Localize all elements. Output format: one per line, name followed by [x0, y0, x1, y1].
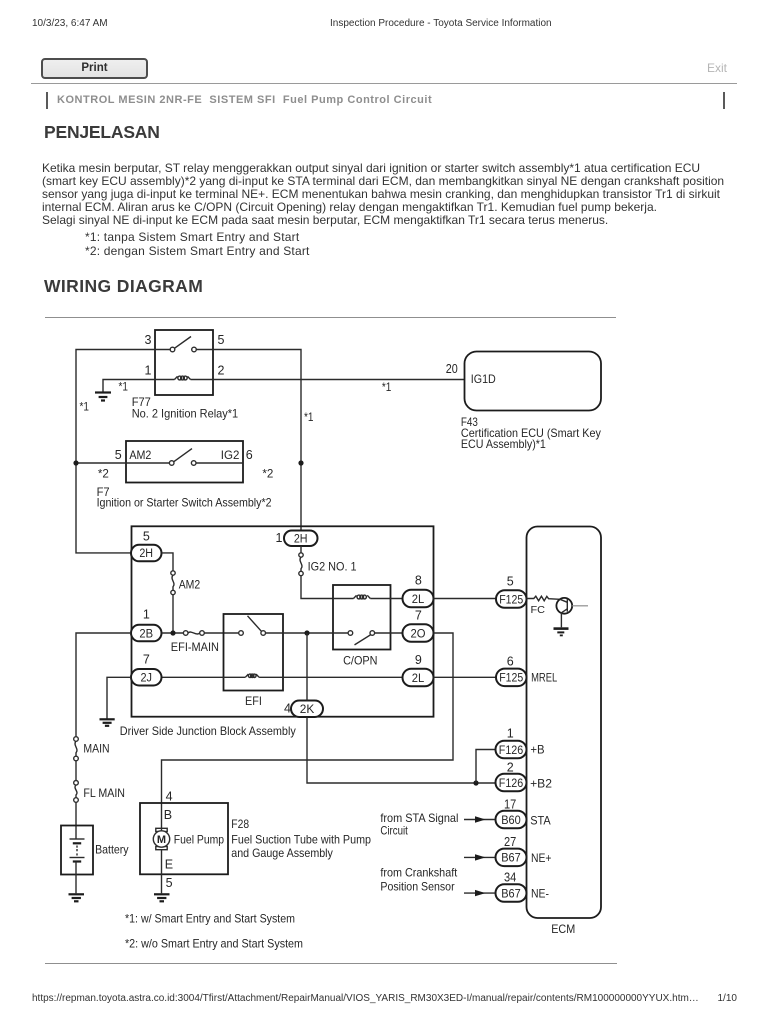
wire branch to +B	[476, 750, 496, 784]
connector B60 STA	[496, 811, 527, 829]
svg-text:STA: STA	[530, 813, 551, 827]
svg-text:Position Sensor: Position Sensor	[380, 879, 454, 893]
svg-text:8: 8	[415, 574, 422, 588]
pin 5 label F7	[115, 448, 122, 462]
svg-text:2: 2	[507, 761, 514, 775]
wire 2O to fuel pump	[162, 633, 454, 831]
svg-text:C/OPN: C/OPN	[343, 654, 377, 668]
connector F126 +B	[496, 741, 527, 759]
svg-text:*2: *2	[98, 466, 109, 480]
svg-text:ECU Assembly)*1: ECU Assembly)*1	[461, 437, 546, 451]
relay EFI coil	[162, 674, 403, 677]
pin 34 label B67	[504, 871, 516, 885]
fuse MAIN	[74, 737, 79, 761]
relay F77 box	[155, 330, 213, 395]
svg-text:5: 5	[143, 530, 150, 544]
svg-text:4: 4	[284, 702, 291, 716]
pin 1 label 2H center	[276, 531, 283, 545]
svg-text:Driver Side Junction Block Ass: Driver Side Junction Block Assembly	[120, 724, 296, 738]
svg-text:B60: B60	[501, 813, 521, 827]
svg-text:IG2: IG2	[221, 448, 240, 462]
svg-text:ECM: ECM	[551, 922, 575, 936]
wire EFI-MAIN to EFI relay	[204, 632, 238, 634]
transistor Tr1	[556, 598, 588, 614]
wire FL MAIN to battery	[75, 802, 77, 838]
svg-text:*1: *1	[119, 380, 129, 394]
connector 2O	[403, 624, 434, 642]
label from STA Signal Circuit	[380, 811, 458, 838]
relay C/OPN box	[333, 585, 391, 650]
wire fuse to C/OPN coil	[301, 576, 333, 599]
fuse FL MAIN	[74, 781, 79, 803]
node +B branch	[473, 780, 478, 785]
terminal NE+	[531, 851, 552, 865]
label Fuel Pump	[174, 832, 225, 846]
label EFI-MAIN	[171, 640, 219, 654]
arrow NE+	[464, 854, 495, 860]
ground G5	[554, 629, 569, 636]
ground G4	[154, 894, 170, 901]
svg-text:1: 1	[143, 608, 150, 622]
junction block box	[132, 526, 434, 716]
ECM box	[527, 527, 602, 919]
svg-text:7: 7	[415, 609, 422, 623]
wire node to 2K	[306, 633, 308, 701]
relay EFI box	[224, 614, 284, 691]
label EFI	[245, 694, 262, 708]
fuel pump box F28	[140, 803, 228, 874]
wire F77 pin1 to ground	[103, 380, 175, 392]
svg-text:from Crankshaft: from Crankshaft	[380, 865, 457, 879]
wire MAIN to FL MAIN	[75, 761, 77, 781]
wire F77 pin3 to left rail	[76, 350, 170, 553]
svg-text:3: 3	[145, 333, 152, 347]
label F43 name	[461, 415, 601, 451]
connector 2L pin9	[403, 669, 434, 687]
pin 7 label 2O	[415, 609, 422, 623]
connector 2L pin8	[403, 590, 434, 608]
label C/OPN	[343, 654, 377, 668]
wire 2H to AM2 fuse	[162, 553, 174, 571]
svg-text:FC: FC	[531, 604, 546, 616]
note smart entry 1	[125, 911, 295, 925]
label block name	[120, 724, 296, 738]
svg-text:B67: B67	[501, 851, 521, 865]
wire 2B to battery rail	[76, 633, 131, 737]
svg-text:2O: 2O	[411, 626, 426, 640]
svg-text:*2: *2	[262, 466, 273, 480]
pin 5 label	[218, 333, 225, 347]
svg-text:NE+: NE+	[531, 851, 552, 865]
wire AM2 to 2B row	[172, 595, 174, 633]
arrow NE-	[464, 890, 495, 896]
pin 6 label F7	[246, 448, 253, 462]
svg-text:9: 9	[415, 653, 422, 667]
wire emitter to ground	[560, 613, 562, 628]
svg-text:*1: *1	[304, 410, 314, 424]
svg-text:Battery: Battery	[95, 843, 129, 857]
wire 2L9 to F125 MREL	[434, 676, 497, 678]
svg-text:2L: 2L	[412, 671, 425, 685]
relay F77 coil	[175, 376, 191, 380]
terminal NE-	[531, 887, 549, 901]
pin 8 label 2L	[415, 574, 422, 588]
svg-text:1: 1	[507, 727, 514, 741]
svg-text:IG2 NO. 1: IG2 NO. 1	[308, 560, 357, 574]
label *1 left rail	[80, 400, 90, 414]
label AM2	[179, 578, 201, 592]
node junction left rail F7	[73, 460, 78, 465]
ground G3	[69, 894, 85, 901]
svg-text:Ignition or Starter Switch Ass: Ignition or Starter Switch Assembly*2	[97, 495, 272, 509]
connector B67 NE-	[496, 884, 527, 902]
terminal IG1D	[471, 372, 496, 386]
svg-text:MREL: MREL	[531, 670, 557, 684]
relay C/OPN coil	[333, 595, 403, 599]
resistor R internal	[527, 596, 560, 601]
arrow STA	[464, 816, 495, 822]
svg-text:FL MAIN: FL MAIN	[83, 786, 125, 800]
svg-text:+B: +B	[530, 743, 544, 757]
wire 2J to ground	[107, 677, 131, 718]
wire IG2 fuse chain	[300, 546, 302, 553]
svg-text:2H: 2H	[294, 532, 308, 546]
terminal MREL	[531, 670, 557, 684]
svg-text:B: B	[164, 808, 172, 822]
ground G1	[95, 393, 111, 401]
svg-text:Circuit: Circuit	[380, 823, 408, 837]
fuse AM2	[171, 571, 175, 595]
pin 6 label F125	[507, 655, 514, 669]
label MAIN	[83, 742, 109, 756]
pin 4 label 2K	[284, 702, 291, 716]
svg-text:*2: w/o Smart Entry and Start: *2: w/o Smart Entry and Start System	[125, 936, 303, 950]
connector 2J	[131, 669, 162, 686]
pin 1 label 2B	[143, 608, 150, 622]
wire 2K to +B2	[307, 717, 496, 783]
node EFI out junction	[304, 630, 309, 635]
terminal IG2	[221, 448, 240, 462]
terminal FC	[531, 604, 546, 616]
connector F125 FC	[496, 590, 527, 608]
wire F7 pin5 stub	[76, 462, 126, 464]
connector F126 +B2	[496, 774, 527, 792]
pin 5 label F125	[507, 575, 514, 589]
note smart entry 2	[125, 936, 303, 950]
pin 20 label	[446, 362, 458, 376]
svg-text:2J: 2J	[140, 671, 152, 685]
label Battery	[95, 843, 129, 857]
switch F7 box	[126, 441, 243, 483]
pin 2 label	[218, 364, 225, 378]
svg-text:F126: F126	[499, 776, 524, 790]
svg-text:7: 7	[143, 653, 150, 667]
svg-text:*1: *1	[382, 380, 392, 394]
terminal AM2	[129, 448, 151, 462]
svg-text:20: 20	[446, 362, 458, 376]
node junction right rail F7	[298, 460, 303, 465]
pin 4 label pump	[166, 790, 173, 804]
svg-text:F125: F125	[499, 592, 523, 606]
svg-text:5: 5	[507, 575, 514, 589]
svg-text:5: 5	[115, 448, 122, 462]
terminal E	[165, 858, 173, 872]
svg-text:1: 1	[276, 531, 283, 545]
pin 27 label B67	[504, 835, 516, 849]
svg-text:1: 1	[145, 364, 152, 378]
label *1 right rail	[304, 410, 314, 424]
relay C/OPN switch	[307, 631, 403, 645]
label ECM	[551, 922, 575, 936]
terminal +B	[530, 743, 544, 757]
pin 1 label F126	[507, 727, 514, 741]
switch F7 contacts	[126, 449, 243, 466]
connector 2H left	[131, 545, 162, 562]
svg-text:AM2: AM2	[129, 448, 151, 462]
label IG2 NO. 1	[308, 560, 357, 574]
ground G2	[100, 719, 115, 726]
pin 5 label 2H	[143, 530, 150, 544]
svg-text:EFI: EFI	[245, 694, 262, 708]
terminal B	[164, 808, 172, 822]
label *2 left	[98, 466, 109, 480]
label F28 name	[231, 817, 371, 860]
label *1 on wire	[382, 380, 392, 394]
label *2 right	[262, 466, 273, 480]
svg-text:4: 4	[166, 790, 173, 804]
svg-text:and Gauge Assembly: and Gauge Assembly	[231, 846, 333, 860]
svg-text:*1: w/ Smart Entry and Start S: *1: w/ Smart Entry and Start System	[125, 911, 295, 925]
relay EFI switch	[239, 616, 307, 636]
svg-text:M: M	[157, 834, 166, 846]
fuse IG2 NO. 1	[299, 553, 303, 576]
svg-text:6: 6	[507, 655, 514, 669]
connector 2H center	[284, 531, 318, 547]
svg-text:Fuel Suction Tube with Pump: Fuel Suction Tube with Pump	[231, 832, 371, 846]
pin 7 label 2J	[143, 653, 150, 667]
svg-text:F126: F126	[499, 743, 524, 757]
fuse EFI-MAIN	[183, 631, 204, 636]
svg-text:F28: F28	[231, 817, 249, 831]
svg-text:NE-: NE-	[531, 887, 549, 901]
svg-text:34: 34	[504, 871, 516, 885]
svg-text:No. 2 Ignition Relay*1: No. 2 Ignition Relay*1	[132, 406, 239, 420]
wire 2L8 to F125	[434, 598, 497, 600]
node AM2/2B junction	[170, 630, 175, 635]
connector F43 box	[465, 352, 602, 411]
motor M fuel pump	[153, 828, 169, 849]
label F77 name	[132, 395, 239, 420]
svg-text:+B2: +B2	[530, 776, 552, 790]
svg-text:EFI-MAIN: EFI-MAIN	[171, 640, 219, 654]
svg-text:5: 5	[166, 876, 173, 890]
svg-text:AM2: AM2	[179, 578, 201, 592]
svg-text:2H: 2H	[139, 546, 153, 560]
pin 9 label 2L	[415, 653, 422, 667]
relay F77 switch contacts	[170, 337, 196, 352]
pin 3 label	[145, 333, 152, 347]
svg-text:B67: B67	[501, 886, 521, 900]
svg-text:2: 2	[218, 364, 225, 378]
svg-text:5: 5	[218, 333, 225, 347]
connector B67 NE+	[496, 849, 527, 867]
label FL MAIN	[83, 786, 125, 800]
svg-text:6: 6	[246, 448, 253, 462]
terminal +B2	[530, 776, 552, 790]
svg-text:E: E	[165, 858, 173, 872]
connector F125 MREL	[496, 669, 527, 687]
svg-text:2K: 2K	[300, 702, 315, 716]
svg-text:17: 17	[504, 798, 516, 812]
terminal STA	[530, 813, 551, 827]
svg-text:27: 27	[504, 835, 516, 849]
pin 2 label F126	[507, 761, 514, 775]
wire 2B to EFI-MAIN	[162, 632, 184, 634]
connector 2B	[131, 625, 162, 642]
label F7 name	[97, 485, 272, 509]
battery box	[61, 826, 93, 875]
wire F77 pin5 to node B	[196, 350, 301, 531]
label *1 at ground	[119, 380, 129, 394]
pin 17 label B60	[504, 798, 516, 812]
svg-text:IG1D: IG1D	[471, 372, 496, 386]
label from Crankshaft Position Sensor	[380, 865, 457, 893]
wire motor to ground	[161, 850, 163, 894]
svg-text:*1: *1	[80, 400, 90, 414]
wire battery to ground	[75, 862, 77, 894]
svg-text:Fuel Pump: Fuel Pump	[174, 832, 225, 846]
svg-text:2B: 2B	[139, 626, 153, 640]
svg-text:2L: 2L	[412, 592, 425, 606]
svg-text:MAIN: MAIN	[83, 742, 109, 756]
svg-text:F125: F125	[499, 671, 523, 685]
pin 5 label pump	[166, 876, 173, 890]
connector 2K	[291, 701, 323, 718]
pin 1 label	[145, 364, 152, 378]
wire F77 pin2 to F43	[191, 379, 465, 381]
battery cells	[70, 839, 85, 862]
